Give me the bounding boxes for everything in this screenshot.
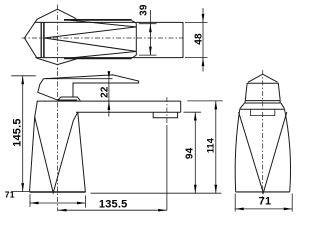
- wedge top line: [44, 27, 136, 38]
- chamfer bottom: [132, 55, 137, 58]
- body left side: [235, 109, 240, 192]
- body rectangle (plan): [36, 22, 184, 57]
- aerator centerline: [166, 97, 168, 125]
- dimension 94: [184, 112, 202, 193]
- svg-text:145.5: 145.5: [12, 118, 24, 147]
- dimension 39: [139, 10, 157, 55]
- neck inset: [251, 109, 275, 115]
- baseline extension: [91, 192, 222, 194]
- lever taper bottom line: [70, 51, 136, 58]
- inner double left edge second line: [40, 22, 42, 57]
- svg-text:48: 48: [194, 33, 205, 45]
- svg-text:135.5: 135.5: [99, 199, 128, 211]
- cap left side: [245, 83, 247, 100]
- spout underside: [76, 111, 181, 113]
- dimension 22: [46, 78, 113, 80]
- flange chamfer right: [281, 103, 285, 109]
- body right kink: [74, 112, 78, 120]
- body bottom: [30, 191, 86, 193]
- inner double left edge: [43, 22, 45, 57]
- dimension 145.5: [11, 76, 36, 192]
- lever end right edge: [135, 23, 137, 55]
- cap right side: [278, 83, 280, 100]
- body right side: [285, 109, 291, 192]
- spout right end: [180, 101, 182, 112]
- lever thick bottom edge: [64, 57, 132, 59]
- dimension 71 (side): [235, 194, 292, 212]
- lever taper top line: [70, 20, 136, 27]
- faceted cap outline lower: [24, 38, 76, 65]
- faceted cap outline upper: [24, 9, 76, 38]
- horizontal centerline (plan): [22, 37, 183, 39]
- cap-to-flange connector left: [244, 101, 246, 103]
- flange bottom: [240, 108, 285, 110]
- aerator box: [153, 112, 177, 118]
- flange chamfer left: [240, 103, 245, 109]
- eave line: [247, 82, 279, 84]
- wedge bottom line: [44, 38, 136, 51]
- chamfer top: [132, 21, 137, 24]
- inner cone V: [239, 112, 287, 193]
- flange top: [245, 102, 281, 104]
- cap bottom: [245, 100, 280, 102]
- svg-text:94: 94: [185, 147, 196, 159]
- cap-to-flange connector right: [279, 101, 281, 103]
- svg-text:71: 71: [259, 195, 272, 207]
- body right edge: [78, 112, 86, 192]
- dimension 135.5: [57, 209, 166, 211]
- deck top surface: [37, 100, 181, 102]
- vertical centerline (plan): [56, 5, 58, 71]
- neck bottom thick band: [57, 99, 77, 101]
- inner cone V: [35, 117, 74, 193]
- spout root slant: [73, 97, 81, 101]
- roof peak: [248, 74, 278, 82]
- svg-text:39: 39: [138, 4, 149, 16]
- svg-text:22: 22: [99, 86, 110, 98]
- dimension 71 (front): [30, 194, 85, 208]
- front centerline: [56, 71, 58, 211]
- body bottom: [236, 191, 290, 193]
- dimension 48: [185, 8, 208, 72]
- body left edge: [30, 101, 38, 192]
- svg-text:71: 71: [5, 189, 15, 199]
- lever thick top edge: [64, 19, 132, 21]
- dimension 114: [187, 101, 223, 193]
- side vertical centerline: [262, 70, 264, 199]
- lever handle outline: [38, 75, 139, 100]
- svg-text:114: 114: [205, 138, 215, 153]
